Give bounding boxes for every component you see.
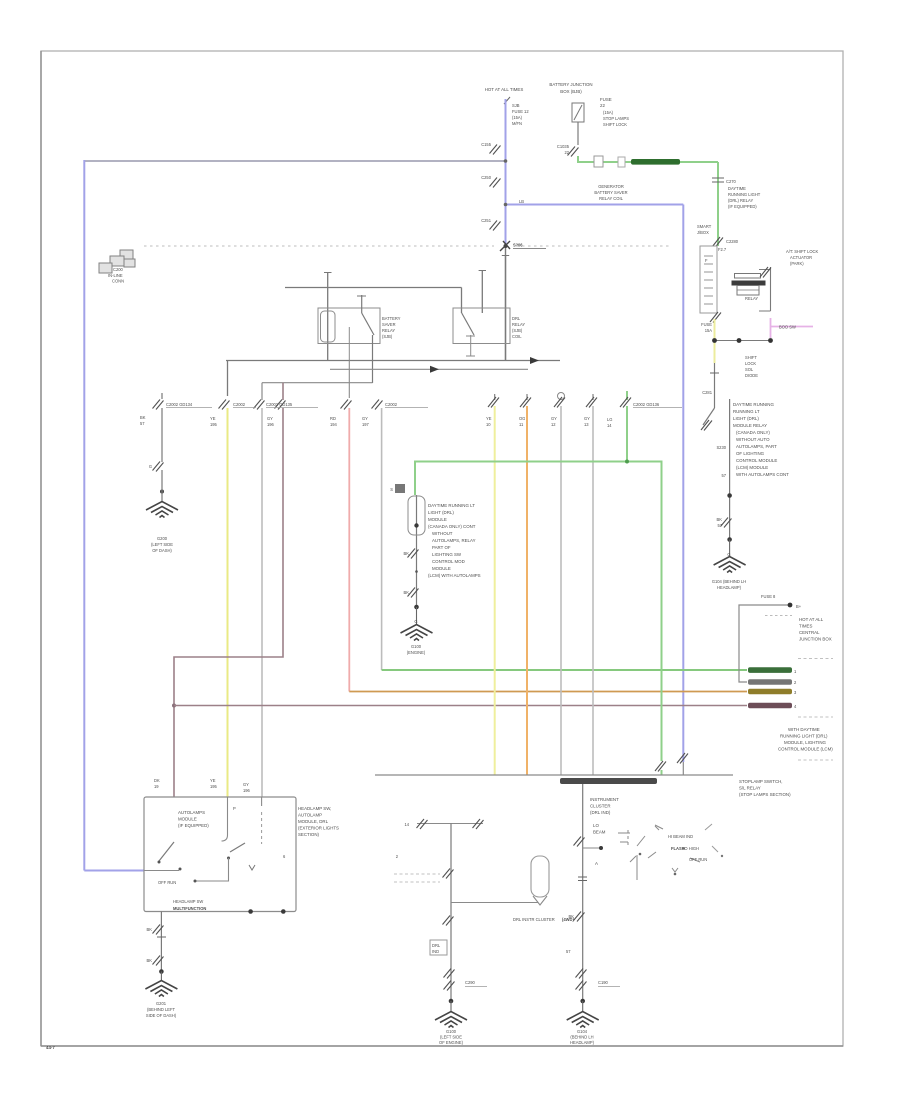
svg-text:C2002 GD134: C2002 GD134 (166, 402, 193, 407)
svg-text:WITHOUT: WITHOUT (432, 531, 453, 536)
svg-text:(IF EQUIPPED): (IF EQUIPPED) (728, 204, 757, 209)
svg-text:C281: C281 (702, 390, 713, 395)
svg-text:(BEHIND LH: (BEHIND LH (570, 1035, 593, 1040)
svg-text:BOX (BJB): BOX (BJB) (560, 89, 582, 94)
svg-text:OF DASH): OF DASH) (152, 548, 172, 553)
svg-text:195: 195 (210, 422, 218, 427)
svg-text:C270: C270 (726, 179, 737, 184)
svg-text:WITHOUT AUTO: WITHOUT AUTO (736, 437, 770, 442)
svg-text:S: S (390, 487, 393, 492)
svg-text:S230: S230 (716, 445, 726, 450)
svg-text:HOT AT ALL TIMES: HOT AT ALL TIMES (485, 87, 524, 92)
svg-text:(EXTERIOR LIGHTS: (EXTERIOR LIGHTS (298, 826, 339, 831)
svg-text:BK: BK (717, 517, 723, 522)
svg-text:C2002: C2002 (385, 402, 398, 407)
svg-text:GY: GY (362, 416, 368, 421)
svg-text:RELAY: RELAY (382, 328, 395, 333)
svg-text:RELAY: RELAY (745, 296, 758, 301)
svg-text:57: 57 (721, 473, 726, 478)
svg-text:DK: DK (154, 778, 160, 783)
svg-text:SMART: SMART (697, 224, 712, 229)
svg-text:BOO SW: BOO SW (779, 325, 796, 330)
svg-text:F2.7: F2.7 (718, 247, 727, 252)
svg-text:(DRL) RELAY: (DRL) RELAY (728, 198, 753, 203)
svg-text:RUNNING LIGHT: RUNNING LIGHT (728, 192, 761, 197)
svg-text:FUSE: FUSE (600, 97, 612, 102)
svg-text:HI BEAM IND: HI BEAM IND (668, 834, 693, 839)
svg-text:(LEFT SIDE: (LEFT SIDE (440, 1035, 462, 1040)
svg-text:PART OF: PART OF (432, 545, 451, 550)
svg-text:IND: IND (432, 949, 439, 954)
svg-text:BK: BK (404, 551, 410, 556)
svg-text:195: 195 (210, 784, 218, 789)
svg-text:S206: S206 (513, 243, 523, 248)
svg-text:C251: C251 (481, 218, 492, 223)
svg-text:SHIFT: SHIFT (745, 355, 757, 360)
svg-text:57: 57 (566, 949, 571, 954)
svg-text:CONTROL MOD: CONTROL MOD (432, 559, 465, 564)
svg-text:(SJB): (SJB) (382, 334, 393, 339)
svg-text:C2002 GD136: C2002 GD136 (633, 402, 660, 407)
svg-text:BATTERY SAVER: BATTERY SAVER (594, 190, 627, 195)
svg-text:A/T: SHIFT LOCK: A/T: SHIFT LOCK (786, 249, 818, 254)
svg-text:STOP LAMPS: STOP LAMPS (603, 116, 629, 121)
svg-text:BEAM: BEAM (593, 830, 606, 835)
svg-text:(DRL IND): (DRL IND) (590, 810, 611, 815)
svg-text:MODULE: MODULE (428, 517, 447, 522)
svg-text:OF LIGHTING: OF LIGHTING (736, 451, 765, 456)
svg-text:SJB: SJB (512, 103, 520, 108)
svg-text:LB: LB (519, 199, 524, 204)
svg-text:C250: C250 (481, 175, 492, 180)
svg-text:22: 22 (600, 103, 605, 108)
svg-text:CONN: CONN (112, 279, 124, 284)
svg-text:GY: GY (584, 416, 590, 421)
svg-text:S/L RELAY: S/L RELAY (739, 786, 761, 791)
svg-text:HEADLAMP SW: HEADLAMP SW (173, 899, 203, 904)
svg-text:JUNCTION BOX: JUNCTION BOX (799, 637, 832, 642)
svg-text:G: G (414, 619, 417, 624)
svg-text:(LEFT SIDE: (LEFT SIDE (151, 542, 173, 547)
svg-text:14: 14 (607, 423, 612, 428)
svg-text:22: 22 (564, 150, 569, 155)
svg-text:BATTERY JUNCTION: BATTERY JUNCTION (549, 82, 592, 87)
svg-text:RELAY: RELAY (512, 322, 525, 327)
svg-text:57: 57 (717, 523, 722, 528)
svg-text:LG: LG (607, 417, 612, 422)
svg-text:AUTOLAMPS: AUTOLAMPS (178, 810, 205, 815)
svg-text:CONTROL MODULE (LCM): CONTROL MODULE (LCM) (778, 747, 833, 752)
svg-text:(BEHIND LEFT: (BEHIND LEFT (147, 1007, 175, 1012)
svg-text:COIL: COIL (512, 334, 522, 339)
svg-text:GY: GY (267, 416, 273, 421)
svg-text:DIODE: DIODE (745, 373, 758, 378)
svg-text:19: 19 (154, 784, 159, 789)
svg-text:C200: C200 (113, 267, 124, 272)
svg-text:RUNNING LT: RUNNING LT (733, 409, 760, 414)
svg-text:C1035: C1035 (557, 144, 570, 149)
svg-text:SECTION): SECTION) (298, 832, 320, 837)
svg-text:MULTIFUNCTION: MULTIFUNCTION (173, 906, 206, 911)
svg-text:G104 (BEHIND LH: G104 (BEHIND LH (712, 579, 746, 584)
svg-text:DRL INSTR CLUSTER: DRL INSTR CLUSTER (513, 917, 555, 922)
svg-text:INSTRUMENT: INSTRUMENT (590, 797, 619, 802)
svg-text:DRL: DRL (432, 943, 441, 948)
svg-text:OG: OG (519, 416, 525, 421)
svg-text:G100: G100 (411, 644, 422, 649)
svg-text:SIDE OF DASH): SIDE OF DASH) (146, 1013, 177, 1018)
svg-text:GY: GY (243, 782, 249, 787)
svg-text:OFF RUN: OFF RUN (158, 880, 176, 885)
svg-text:CENTRAL: CENTRAL (799, 630, 820, 635)
svg-text:14: 14 (404, 822, 409, 827)
svg-text:HOT AT ALL: HOT AT ALL (799, 617, 824, 622)
svg-text:CONTROL MODULE: CONTROL MODULE (736, 458, 777, 463)
svg-text:MODULE RELAY: MODULE RELAY (733, 423, 767, 428)
svg-text:B+: B+ (796, 604, 802, 609)
svg-text:C155: C155 (481, 142, 492, 147)
svg-text:HEADLAMP): HEADLAMP) (570, 1040, 595, 1045)
svg-text:DAYTIME: DAYTIME (728, 186, 746, 191)
svg-text:YE: YE (210, 416, 216, 421)
svg-text:WITH DAYTIME: WITH DAYTIME (788, 727, 820, 732)
svg-text:C2280: C2280 (726, 239, 739, 244)
svg-text:(LCM) WITH AUTOLAMPS: (LCM) WITH AUTOLAMPS (428, 573, 481, 578)
svg-text:AUTOLAMPS, PART: AUTOLAMPS, PART (736, 444, 777, 449)
svg-text:BATTERY: BATTERY (382, 316, 401, 321)
svg-text:57: 57 (140, 421, 145, 426)
svg-text:MODULE: MODULE (432, 566, 451, 571)
svg-text:OFF RUN: OFF RUN (689, 857, 707, 862)
svg-text:12: 12 (551, 422, 556, 427)
svg-text:FUSE 8: FUSE 8 (761, 594, 776, 599)
svg-text:LOCK: LOCK (745, 361, 756, 366)
svg-text:YE: YE (210, 778, 216, 783)
svg-text:GENERATOR: GENERATOR (598, 184, 624, 189)
svg-text:(LCM) MODULE: (LCM) MODULE (736, 465, 768, 470)
svg-text:MODULE, LIGHTING: MODULE, LIGHTING (784, 740, 827, 745)
svg-text:MODULE: MODULE (178, 817, 197, 822)
svg-text:DAYTIME RUNNING LT: DAYTIME RUNNING LT (428, 503, 475, 508)
svg-text:196: 196 (267, 422, 275, 427)
svg-text:OF ENGINE): OF ENGINE) (439, 1040, 464, 1045)
svg-text:G100: G100 (446, 1029, 457, 1034)
svg-text:IN-LINE: IN-LINE (108, 273, 123, 278)
svg-text:SOL: SOL (745, 367, 754, 372)
svg-text:GY: GY (551, 416, 557, 421)
svg-text:P: P (233, 806, 236, 811)
svg-text:(CANADA ONLY): (CANADA ONLY) (736, 430, 770, 435)
svg-text:HEADLAMP): HEADLAMP) (717, 585, 742, 590)
svg-text:ACTUATOR: ACTUATOR (790, 255, 812, 260)
svg-text:(STOP LAMPS SECTION): (STOP LAMPS SECTION) (739, 792, 791, 797)
svg-text:M/FN: M/FN (512, 121, 522, 126)
svg-text:A: A (595, 861, 598, 866)
svg-text:15A: 15A (705, 328, 713, 333)
svg-text:G200: G200 (157, 536, 168, 541)
svg-text:LO: LO (593, 823, 599, 828)
svg-text:RELAY COIL: RELAY COIL (599, 196, 623, 201)
svg-text:J/BOX: J/BOX (697, 230, 709, 235)
svg-text:AUTOLAMPS, RELAY: AUTOLAMPS, RELAY (432, 538, 476, 543)
svg-text:STOPLAMP SWITCH,: STOPLAMP SWITCH, (739, 779, 783, 784)
svg-text:C2002: C2002 (233, 402, 246, 407)
svg-text:FUSE: FUSE (701, 322, 712, 327)
svg-text:YE: YE (486, 416, 492, 421)
svg-text:G104: G104 (577, 1029, 588, 1034)
svg-text:FUSE 12: FUSE 12 (512, 109, 529, 114)
svg-text:BK: BK (147, 927, 153, 932)
svg-text:(CANADA ONLY) CONT: (CANADA ONLY) CONT (428, 524, 476, 529)
svg-text:DRL: DRL (512, 316, 521, 321)
svg-text:11: 11 (519, 422, 524, 427)
svg-text:TIMES: TIMES (799, 624, 812, 629)
svg-text:BK: BK (147, 958, 153, 963)
svg-text:CLUSTER: CLUSTER (590, 804, 611, 809)
svg-text:WITH AUTOLAMPS CONT: WITH AUTOLAMPS CONT (736, 472, 789, 477)
svg-text:LIGHT (DRL): LIGHT (DRL) (733, 416, 759, 421)
svg-text:HEADLAMP SW,: HEADLAMP SW, (298, 806, 331, 811)
svg-text:RUNNING LIGHT (DRL): RUNNING LIGHT (DRL) (780, 734, 828, 739)
svg-text:13: 13 (584, 422, 589, 427)
svg-text:G201: G201 (156, 1001, 167, 1006)
svg-text:DAYTIME RUNNING: DAYTIME RUNNING (733, 402, 774, 407)
svg-text:(15A): (15A) (512, 115, 523, 120)
svg-text:SAVER: SAVER (382, 322, 396, 327)
svg-text:197: 197 (362, 422, 370, 427)
svg-text:LIGHTING SW: LIGHTING SW (432, 552, 462, 557)
svg-text:(SJB): (SJB) (512, 328, 523, 333)
svg-text:G: G (149, 464, 152, 469)
svg-text:TO HIGH: TO HIGH (682, 846, 699, 851)
svg-text:(PARK): (PARK) (790, 261, 804, 266)
svg-text:LIGHT (DRL): LIGHT (DRL) (428, 510, 454, 515)
svg-text:194: 194 (330, 422, 338, 427)
svg-text:BK: BK (569, 914, 575, 919)
svg-text:10: 10 (486, 422, 491, 427)
svg-text:BK: BK (140, 415, 146, 420)
svg-text:(ENGINE): (ENGINE) (407, 650, 426, 655)
svg-text:MODULE, DRL: MODULE, DRL (298, 819, 329, 824)
svg-text:AUTOLAMP: AUTOLAMP (298, 813, 322, 818)
svg-text:C290: C290 (465, 980, 476, 985)
svg-text:SHIFT LOCK: SHIFT LOCK (603, 122, 627, 127)
svg-text:196: 196 (243, 788, 251, 793)
svg-text:(IF EQUIPPED): (IF EQUIPPED) (178, 823, 209, 828)
svg-text:44-7: 44-7 (46, 1045, 55, 1050)
svg-text:RD: RD (330, 416, 336, 421)
svg-text:C190: C190 (598, 980, 609, 985)
svg-text:(15A): (15A) (603, 110, 614, 115)
svg-text:BK: BK (404, 590, 410, 595)
